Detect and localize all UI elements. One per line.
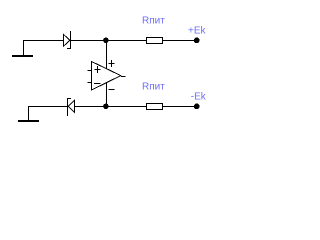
resistor R2: [147, 104, 163, 110]
wire bottom rail middle: [74, 106, 146, 108]
ground GND1 (top-left): [12, 40, 33, 57]
zener diode VD1: [64, 31, 72, 49]
terminal +Ek: [194, 38, 199, 43]
node -V junction: [104, 104, 109, 109]
svg-text:-Ek: -Ek: [191, 92, 207, 103]
wire top rail left: [23, 40, 63, 42]
wire op-amp V- pin: [106, 83, 108, 106]
wire top rail middle: [70, 40, 146, 42]
zener diode VD2: [67, 98, 75, 116]
op-amp U1: [88, 60, 126, 90]
wire top rail right: [162, 40, 195, 42]
terminal -Ek: [194, 104, 199, 109]
svg-text:Rпит: Rпит: [142, 16, 165, 27]
ground GND2 (bottom-left): [18, 106, 39, 122]
wire bottom rail left: [28, 106, 67, 108]
wire bottom rail right: [162, 106, 195, 108]
resistor R1: [147, 38, 163, 44]
wire op-amp V+ pin: [106, 40, 108, 69]
svg-text:Rпит: Rпит: [142, 82, 165, 93]
svg-text:+Ek: +Ek: [188, 26, 207, 37]
node +V junction: [104, 38, 109, 43]
